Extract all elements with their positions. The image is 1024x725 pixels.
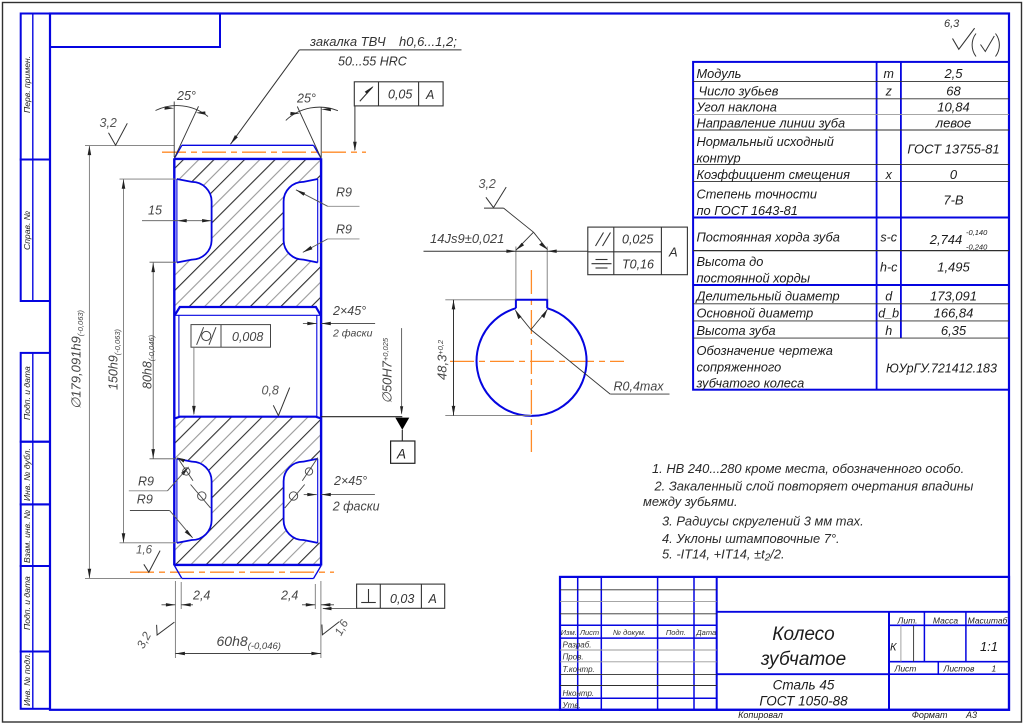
top pitch centerline (orange) [162,151,366,153]
svg-text:d: d [885,290,893,304]
svg-text:-0,240: -0,240 [966,243,988,252]
svg-text:3,2: 3,2 [479,177,496,191]
gear section: upper rim hatching [174,160,321,307]
svg-text:ГОСТ 13755-81: ГОСТ 13755-81 [907,142,999,157]
body right edge [320,158,322,565]
pocket upper-right outline [284,179,318,263]
svg-text:Инв. № дубл.: Инв. № дубл. [22,448,32,501]
gear section: lower rim hatching [174,417,321,564]
svg-text:Подп.: Подп. [666,628,686,637]
svg-text:3,2: 3,2 [100,116,117,130]
svg-text:Формат: Формат [912,710,948,720]
svg-text:h-c: h-c [880,261,898,275]
svg-text:Обозначение чертежа: Обозначение чертежа [697,343,833,358]
perpendicularity frame 0,03 A [357,584,445,608]
svg-text:2 фаски: 2 фаски [332,328,373,340]
svg-text:К: К [890,642,897,654]
svg-text:Утв.: Утв. [562,701,581,710]
svg-text:10,84: 10,84 [937,100,970,115]
svg-text:Пров.: Пров. [563,653,584,662]
svg-text:1,6: 1,6 [136,545,153,557]
svg-text:Взам. инв. №: Взам. инв. № [22,510,32,563]
svg-text:ГОСТ 1050-88: ГОСТ 1050-88 [759,694,848,709]
svg-text:2 фаски: 2 фаски [332,500,380,514]
bottom pitch centerline (orange) [130,571,334,573]
svg-text:левое: левое [935,116,972,131]
svg-text:Направление линии зуба: Направление линии зуба [697,116,846,131]
svg-text:2,744: 2,744 [929,232,963,247]
svg-text:ЮУрГУ.721412.183: ЮУрГУ.721412.183 [886,362,997,376]
left margin column: box Инв. № дубл. [21,442,50,505]
svg-text:Дата: Дата [695,628,716,637]
runout tolerance frame 0,05 A [354,82,443,106]
svg-text:2,5: 2,5 [943,66,963,81]
svg-text:Подп. и дата: Подп. и дата [22,576,32,630]
svg-text:50...55 HRC: 50...55 HRC [338,55,408,69]
svg-text:Подп. и дата: Подп. и дата [22,366,32,420]
svg-text:0,008: 0,008 [232,330,263,344]
svg-text:x: x [885,168,893,182]
tooth chamfer top-right [314,145,322,158]
svg-text:R9: R9 [336,223,352,237]
svg-text:Т0,16: Т0,16 [622,258,654,272]
dimension 150h9 [120,179,177,543]
bottom extension lines [175,581,321,658]
tooth tip line top [182,144,314,146]
dimension 14Js9±0,021 [424,250,588,252]
svg-text:А3: А3 [965,710,977,720]
draft marks lower-left pocket [178,458,211,508]
svg-text:зубчатого колеса: зубчатого колеса [696,376,805,391]
dimension 15 (pocket depth) [142,220,212,222]
svg-text:1. НВ 240...280 кроме места, о: 1. НВ 240...280 кроме места, обозначенно… [652,461,964,476]
dimension 60h8 [175,653,321,655]
angle 25 deg left [173,102,175,158]
svg-text:Лит.: Лит. [897,616,918,626]
svg-text:1,495: 1,495 [937,260,970,275]
svg-text:контур: контур [697,151,741,166]
pocket lower-left outline [177,459,212,543]
svg-text:Высота до: Высота до [697,254,764,269]
svg-text:2×45°: 2×45° [333,474,367,488]
svg-text:Сталь 45: Сталь 45 [773,678,835,693]
title block frame [560,577,1009,710]
keyway bottom line (upper bore) [175,307,321,315]
svg-text:А: А [428,592,437,606]
tooth chamfer top-left [174,145,182,158]
svg-text:-0,140: -0,140 [966,228,988,237]
svg-text:7-В: 7-В [943,193,964,208]
svg-text:Число зубьев: Число зубьев [699,83,779,98]
svg-text:166,84: 166,84 [934,306,974,321]
svg-text:6,35: 6,35 [941,323,967,338]
svg-text:Масса: Масса [933,616,958,626]
lit massa masshtab [897,616,1009,626]
bore bottom line [175,417,321,419]
svg-text:4. Уклоны штамповочные 7°.: 4. Уклоны штамповочные 7°. [662,531,840,546]
svg-text:закалка ТВЧ: закалка ТВЧ [309,34,386,49]
svg-text:между зубьями.: между зубьями. [643,494,738,509]
svg-text:h: h [885,324,892,338]
svg-text:Высота зуба: Высота зуба [697,323,776,338]
parallelism-symmetry frame 0,025 T0,16 A [588,227,688,275]
dimension 80h8 [150,262,177,459]
left margin column: box Подп. и дата (lower) [21,566,50,652]
keyway view center lines (orange) [450,360,624,362]
svg-text:14Js9±0,021: 14Js9±0,021 [430,231,504,246]
svg-text:15: 15 [148,204,162,218]
left margin column: box Подп. и дата (upper) [21,353,50,442]
svg-text:1:1: 1:1 [980,639,998,654]
svg-text:d_b: d_b [878,307,899,321]
bore chamfer edge verticals [178,316,180,417]
left margin column: box Справ. № [21,160,50,302]
svg-text:А: А [396,447,406,462]
svg-text:2. Закаленный слой повторяет о: 2. Закаленный слой повторяет очертания в… [654,479,974,494]
svg-text:h0,6...1,2;: h0,6...1,2; [399,34,457,49]
svg-text:постоянной хорды: постоянной хорды [697,271,811,286]
keyway extension lines [445,247,547,416]
leader R0,4max [531,330,610,395]
svg-text:Делительный диаметр: Делительный диаметр [695,289,840,304]
svg-text:Коэффициент смещения: Коэффициент смещения [697,167,851,182]
pocket upper-left outline [177,179,212,263]
svg-text:Степень точности: Степень точности [697,187,818,202]
svg-text:2×45°: 2×45° [332,304,366,318]
svg-text:R9: R9 [138,475,154,489]
svg-text:173,091: 173,091 [930,289,977,304]
title block header texts [561,628,716,637]
svg-text:зубчатое: зубчатое [760,649,846,670]
keyway slot [516,300,547,308]
technical notes [643,461,974,564]
dimension 48,3+0,2 [453,300,455,416]
svg-text:Нконтр.: Нконтр. [563,689,595,698]
svg-text:68: 68 [946,83,961,98]
svg-text:Колесо: Колесо [772,624,834,645]
svg-text:0: 0 [950,167,958,182]
left margin column: box Перв. примен. [21,14,50,160]
svg-text:Нормальный исходный: Нормальный исходный [697,134,834,149]
datum A [321,416,402,418]
svg-text:1: 1 [992,664,997,674]
tooth chamfer bottom-right [314,566,322,579]
top-left box [50,14,220,48]
svg-text:25°: 25° [176,89,196,103]
svg-text:Модуль: Модуль [697,66,742,81]
svg-text:Лист: Лист [894,664,917,674]
svg-text:R9: R9 [336,186,352,200]
svg-text:2,4: 2,4 [280,589,298,603]
svg-text:по ГОСТ 1643-81: по ГОСТ 1643-81 [697,203,798,218]
svg-text:Копировал: Копировал [738,710,783,720]
svg-text:А: А [668,245,678,260]
svg-text:0,03: 0,03 [390,592,414,606]
svg-text:Масштаб: Масштаб [968,616,1009,626]
gear parameter table [693,62,1009,390]
rim top outline (root line) [174,158,321,160]
tooth tip line bottom [182,578,314,580]
svg-text:Угол наклона: Угол наклона [696,100,777,115]
svg-text:s-c: s-c [880,231,897,245]
svg-text:сопряженного: сопряженного [697,360,782,375]
svg-text:№ докум.: № докум. [613,628,646,637]
svg-text:3. Радиусы скруглений 3 мм max: 3. Радиусы скруглений 3 мм max. [662,514,864,529]
svg-text:Справ. №: Справ. № [22,211,32,250]
svg-text:А: А [425,88,434,102]
svg-text:2,4: 2,4 [192,589,210,603]
left margin column: box Инв. № подл. [21,652,50,709]
cylindricity frame 0,008 [191,325,271,348]
rim bottom outline [174,564,321,566]
svg-text:Перв. примен.: Перв. примен. [22,56,32,113]
svg-text:R9: R9 [137,493,153,507]
svg-text:25°: 25° [296,92,316,106]
svg-text:0,8: 0,8 [262,384,279,398]
angle 25 deg right [320,107,322,158]
svg-text:Листов: Листов [943,664,976,674]
svg-text:6,3: 6,3 [944,18,960,30]
bore top line [175,314,321,316]
svg-text:R0,4max: R0,4max [614,380,665,394]
svg-text:z: z [885,84,893,98]
svg-text:Разраб.: Разраб. [563,641,592,650]
svg-text:Т.контр.: Т.контр. [563,665,595,674]
svg-text:Основной диаметр: Основной диаметр [697,306,814,321]
svg-text:Лист: Лист [579,628,599,637]
svg-text:Инв. № подл.: Инв. № подл. [22,653,32,706]
pocket lower-right outline [284,459,318,543]
svg-text:0,025: 0,025 [622,233,653,247]
svg-text:0,05: 0,05 [388,88,412,102]
dimension Ø179.091h9 [85,145,182,578]
tooth chamfer bottom-left [174,566,182,579]
body left edge [173,158,175,565]
svg-text:Постоянная хорда зуба: Постоянная хорда зуба [697,230,840,245]
svg-text:Изм.: Изм. [561,628,577,637]
left margin column: box Взам. инв. № [21,504,50,566]
draft marks lower-right pocket [285,458,318,508]
bore circle with keyway [477,308,587,416]
svg-text:m: m [883,67,893,81]
